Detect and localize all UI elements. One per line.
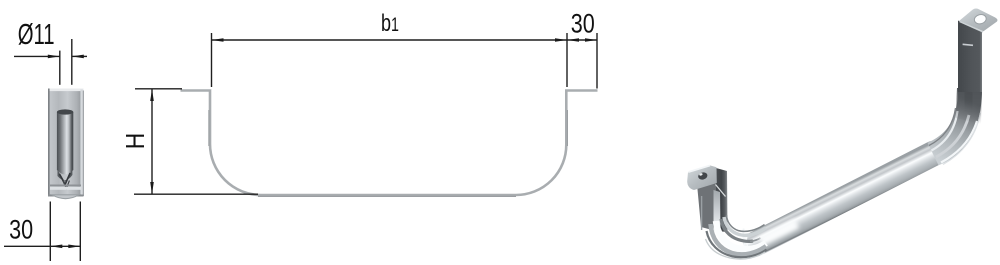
band face below bottom-left flange <box>697 173 716 231</box>
profile inner accent right leg <box>566 110 568 146</box>
dimension b1 label <box>381 11 399 37</box>
extension line slot right <box>71 39 73 85</box>
bottom-left bend gray band <box>711 224 767 254</box>
top band small highlight <box>963 44 973 45</box>
dimension line H <box>151 89 153 194</box>
junction bright patch (blurred) <box>761 224 797 242</box>
svg-text:30: 30 <box>571 9 595 39</box>
dimension line b1 <box>212 39 568 41</box>
extension line b1 left <box>211 33 213 87</box>
band bent-crest highlight strip <box>714 190 721 233</box>
extension line 30 right <box>79 202 81 262</box>
bottom-left bend dark ring <box>721 219 753 241</box>
dimension H label <box>121 133 150 150</box>
bottom-left bend outer thin light edge <box>706 239 766 259</box>
top-right bend inner streak <box>932 111 958 151</box>
svg-text:b1: b1 <box>381 11 399 37</box>
top-right bend mid streak <box>936 115 969 157</box>
diagonal band end-cap highlight <box>746 234 764 255</box>
dimension line 30 bottom <box>4 245 80 247</box>
svg-text:30: 30 <box>9 215 33 245</box>
bottom-left bend inner edge line <box>727 215 765 231</box>
bottom-left bend light band <box>724 217 766 235</box>
profile inner accent left leg <box>208 110 210 146</box>
dimension 30 label (left view) <box>9 215 33 245</box>
band face left edge highlight <box>701 196 703 230</box>
dimension Ø11 label <box>18 19 55 51</box>
top-right flange hole rim <box>973 13 987 25</box>
top-right bend soft shadow <box>967 84 970 102</box>
extension line H bottom <box>134 193 258 195</box>
top-right bend outer thin bright <box>943 113 980 165</box>
top-right flange front edge <box>960 22 984 33</box>
svg-text:Ø11: Ø11 <box>18 19 55 51</box>
dimension line 30 top right <box>567 39 597 41</box>
bottom-left flange hole <box>697 171 708 180</box>
top-right vertical band (dark) <box>958 21 982 93</box>
arrow b1 right <box>555 38 567 42</box>
extension line 30 left <box>49 202 51 262</box>
arrow H bottom <box>150 182 154 194</box>
flange corner highlight line <box>716 185 726 197</box>
bottom-left flange top edge highlight <box>689 166 711 173</box>
band edge strip bottom-left (dark) <box>716 168 728 232</box>
arrow H top <box>150 89 154 101</box>
dimension 30 label (top right) <box>571 9 595 39</box>
plate lower reflections <box>50 185 81 199</box>
arrow 30 left (points left) <box>567 38 579 42</box>
extension line slot left <box>59 51 61 85</box>
bottom-left bend dark ring taper <box>750 238 761 242</box>
arrow Ø11 right <box>72 55 84 59</box>
bottom-left bend white swoosh <box>716 221 766 249</box>
extension line H top <box>135 88 182 90</box>
bottom-left bend outer dark edge <box>707 231 767 257</box>
top-right bend blend to dark <box>956 88 983 124</box>
top-right bend outer white edge <box>941 121 977 163</box>
extension line b1 right / 30 left <box>566 33 568 87</box>
top-right bend inner dark line <box>929 108 956 146</box>
bottom-left flange plate <box>687 165 717 190</box>
diagonal band end-cap left rim <box>743 229 750 251</box>
dimension line Ø11 <box>14 55 87 57</box>
svg-text:H: H <box>121 133 150 150</box>
slot hole (rendered) <box>57 109 73 188</box>
diagonal band <box>756 154 933 244</box>
flange hole glint <box>699 173 703 176</box>
arrow b1 left <box>212 38 224 42</box>
top-right flange <box>959 8 997 31</box>
extension line 30 right <box>596 33 598 89</box>
arrow 30 left <box>50 245 62 249</box>
profile bottom accent <box>258 195 516 197</box>
top-right bend <box>928 88 983 165</box>
arrow Ø11 left <box>48 55 60 59</box>
arrow 30 right (points right) <box>585 38 597 42</box>
side view plate (rendered metal) <box>48 89 84 197</box>
arrow 30 right <box>68 245 80 249</box>
U-profile of strap (gray) <box>181 91 598 196</box>
